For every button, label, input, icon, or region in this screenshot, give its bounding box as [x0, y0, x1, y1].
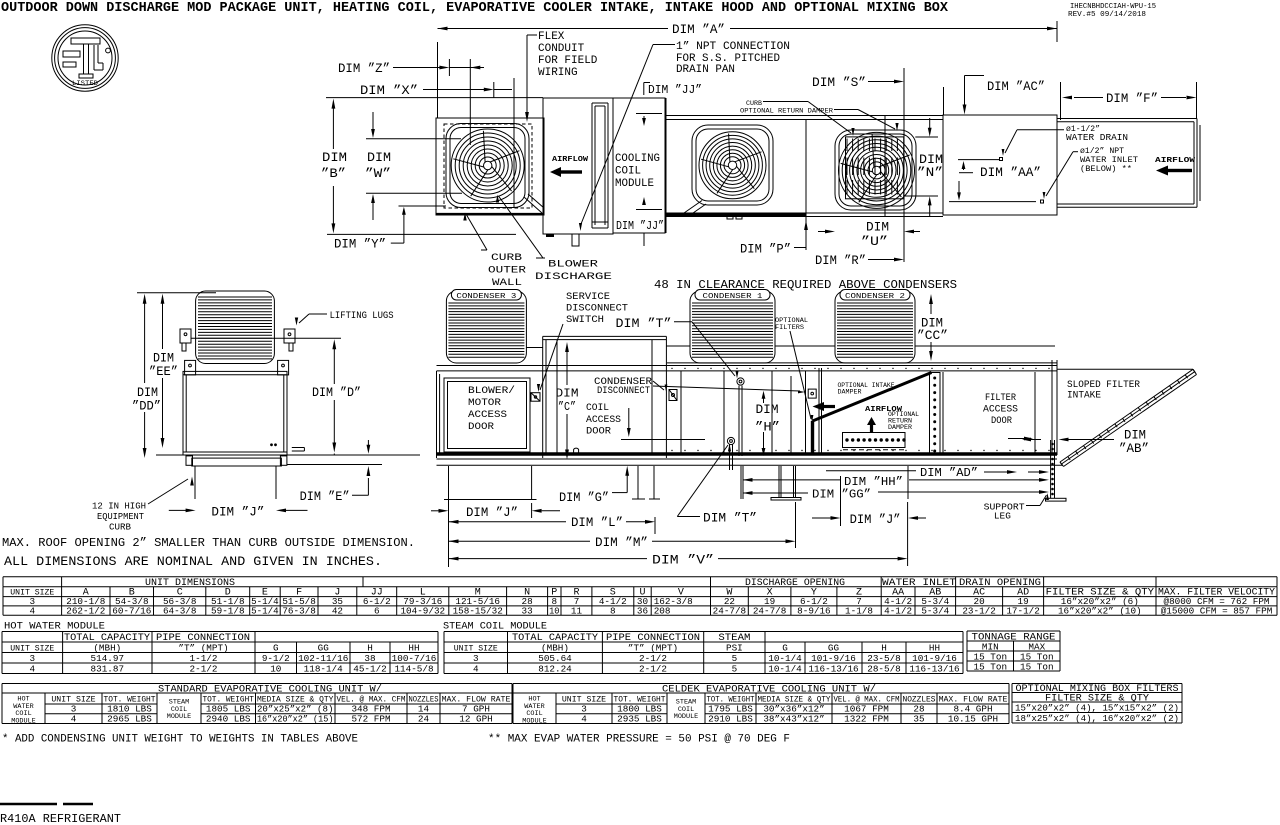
svg-text:COIL: COIL	[615, 166, 641, 178]
svg-text:DIM ”E”: DIM ”E”	[300, 490, 350, 504]
svg-text:CURB: CURB	[491, 252, 522, 264]
svg-text:@15000 CFM = 857 FPM: @15000 CFM = 857 FPM	[1161, 605, 1273, 616]
svg-text:* ADD CONDENSING UNIT WEIGHT T: * ADD CONDENSING UNIT WEIGHT TO WEIGHTS …	[2, 734, 358, 746]
right elevation: right section dividers	[680, 371, 682, 455]
svg-text:CURB: CURB	[109, 523, 132, 533]
plan view: DIM Y dimension	[334, 238, 386, 252]
left elevation: lifting lug upper left	[180, 329, 191, 343]
svg-text:G: G	[273, 642, 279, 653]
svg-text:”C”: ”C”	[558, 401, 576, 414]
plan view: curb inner dashed wall	[444, 124, 532, 208]
svg-text:AIRFLOW: AIRFLOW	[552, 156, 589, 164]
svg-text:1” NPT CONNECTION: 1” NPT CONNECTION	[676, 41, 790, 53]
svg-text:DIM ”AA”: DIM ”AA”	[980, 166, 1041, 180]
svg-text:DIM: DIM	[1124, 429, 1146, 443]
plan view: curb label small	[740, 100, 833, 115]
svg-text:4: 4	[71, 713, 77, 724]
svg-text:38”x43”x12”: 38”x43”x12”	[763, 713, 824, 724]
plan view: blower discharge module	[543, 98, 613, 234]
svg-text:4: 4	[473, 663, 479, 674]
svg-text:2-1/2: 2-1/2	[190, 663, 218, 674]
svg-text:1322 FPM: 1322 FPM	[844, 713, 889, 724]
svg-text:1-1/2: 1-1/2	[190, 653, 218, 664]
svg-text:DIM ”J”: DIM ”J”	[850, 513, 901, 527]
svg-text:DIM ”AC”: DIM ”AC”	[987, 80, 1045, 94]
right elevation: blower access door	[444, 378, 530, 452]
right elevation: DIM G dimension	[559, 491, 609, 505]
svg-text:FOR FIELD: FOR FIELD	[538, 55, 598, 67]
svg-text:ACCESS: ACCESS	[586, 414, 621, 426]
svg-text:812.24: 812.24	[538, 663, 572, 674]
svg-text:DIM ”A”: DIM ”A”	[672, 23, 725, 37]
svg-text:DAMPER: DAMPER	[838, 389, 862, 396]
plan view: flex conduit label + leader	[538, 31, 598, 79]
svg-text:WATER DRAIN: WATER DRAIN	[1066, 133, 1128, 143]
svg-text:4: 4	[30, 605, 36, 616]
svg-text:15 Ton: 15 Ton	[974, 661, 1007, 672]
right elevation: support leg	[1050, 440, 1052, 498]
right elevation: DIM C dimension	[556, 388, 579, 415]
plan view: chamfer band corner	[684, 201, 702, 214]
svg-text:REV.#5 09/14/2018: REV.#5 09/14/2018	[1068, 11, 1146, 19]
svg-text:5: 5	[732, 653, 738, 664]
svg-text:DIM: DIM	[556, 388, 579, 401]
svg-text:DIM ”GG”: DIM ”GG”	[812, 489, 871, 502]
svg-text:DRAIN PAN: DRAIN PAN	[676, 64, 735, 76]
left elevation: DIM J dimension	[169, 509, 186, 511]
svg-text:104-9/32: 104-9/32	[400, 605, 445, 616]
plan view: condenser grille bars	[847, 139, 897, 195]
svg-text:BLOWER/: BLOWER/	[468, 385, 515, 397]
svg-text:DIM ”T”: DIM ”T”	[616, 317, 672, 331]
svg-text:IHECNBHDCCIAH-WPU-15: IHECNBHDCCIAH-WPU-15	[1070, 3, 1156, 11]
svg-text:ALL DIMENSIONS ARE NOMINAL AND: ALL DIMENSIONS ARE NOMINAL AND GIVEN IN …	[4, 554, 382, 569]
plan view: AIRFLOW arrow right	[1155, 157, 1196, 165]
svg-text:4-1/2: 4-1/2	[884, 605, 912, 616]
svg-text:45-1/2: 45-1/2	[353, 663, 386, 674]
svg-text:DIM ”S”: DIM ”S”	[812, 76, 866, 90]
svg-text:DIM: DIM	[756, 403, 779, 417]
svg-text:CONDENSER 2: CONDENSER 2	[845, 293, 905, 301]
svg-text:9-1/2: 9-1/2	[262, 653, 290, 664]
plan view: heating fan	[699, 132, 766, 199]
left elevation: ground lines	[156, 454, 183, 456]
svg-text:12 GPH: 12 GPH	[459, 713, 492, 724]
svg-text:INTAKE: INTAKE	[1067, 390, 1101, 402]
svg-text:1-1/8: 1-1/8	[845, 605, 873, 616]
table: tonnage range	[967, 630, 1060, 632]
svg-text:(MBH): (MBH)	[93, 642, 121, 653]
refrigerant underline	[0, 803, 57, 805]
ETL listed logo	[52, 25, 118, 91]
svg-text:H: H	[881, 642, 887, 653]
svg-text:5: 5	[732, 663, 738, 674]
svg-text:DIM ”G”: DIM ”G”	[559, 491, 609, 505]
table: hot water module	[4, 621, 105, 633]
svg-text:116-13/16: 116-13/16	[808, 663, 858, 674]
plan view: curb box (blower section)	[436, 118, 544, 215]
svg-text:EQUIPMENT: EQUIPMENT	[97, 512, 145, 522]
svg-text:DIM ”AD”: DIM ”AD”	[920, 466, 978, 480]
svg-text:5-1/4: 5-1/4	[251, 605, 279, 616]
svg-text:514.97: 514.97	[91, 653, 124, 664]
right elevation: support leg label	[984, 503, 1025, 522]
svg-text:HH: HH	[408, 642, 419, 653]
svg-text:4: 4	[30, 663, 36, 674]
right elevation: DIM AB dimension	[1119, 429, 1149, 457]
right elevation: top rails	[667, 362, 1057, 364]
right elevation: DIM GG dimension	[743, 492, 809, 494]
svg-text:AIRFLOW: AIRFLOW	[1155, 157, 1196, 165]
svg-text:PSI: PSI	[726, 642, 743, 653]
svg-text:24-7/8: 24-7/8	[753, 605, 786, 616]
svg-text:”CC”: ”CC”	[917, 329, 948, 343]
svg-text:DIM ”L”: DIM ”L”	[571, 516, 623, 530]
plan view: DIM R dimension	[815, 254, 866, 268]
right elevation: DIM J dimension (right)	[812, 517, 832, 519]
svg-text:28-5/8: 28-5/8	[867, 663, 900, 674]
svg-text:G: G	[782, 642, 788, 653]
svg-text:OPTIONAL RETURN DAMPER: OPTIONAL RETURN DAMPER	[740, 108, 833, 115]
svg-text:2965 LBS: 2965 LBS	[107, 713, 152, 724]
left elevation: DIM E dimension	[300, 490, 350, 504]
svg-text:FLEX: FLEX	[538, 31, 565, 43]
svg-text:8-9/16: 8-9/16	[797, 605, 830, 616]
svg-text:LIFTING LUGS: LIFTING LUGS	[330, 310, 394, 322]
svg-text:”W”: ”W”	[365, 167, 391, 181]
svg-text:DIM ”X”: DIM ”X”	[360, 84, 418, 98]
svg-text:DIM ”Y”: DIM ”Y”	[334, 238, 386, 252]
svg-text:23-1/2: 23-1/2	[962, 605, 995, 616]
svg-text:102-11/16: 102-11/16	[298, 653, 348, 664]
svg-text:FILTER: FILTER	[985, 392, 1017, 404]
svg-text:DIM ”JJ”: DIM ”JJ”	[616, 220, 664, 233]
svg-text:CONDUIT: CONDUIT	[538, 43, 585, 55]
svg-text:DIM: DIM	[919, 153, 943, 167]
svg-text:16”x20”x2” (15): 16”x20”x2” (15)	[257, 713, 334, 724]
svg-text:DISCHARGE OPENING: DISCHARGE OPENING	[745, 577, 845, 589]
plan view: curb outer wall label	[488, 252, 527, 289]
svg-text:BLOWER: BLOWER	[548, 259, 599, 271]
right elevation: DIM CC dimension	[917, 317, 948, 344]
svg-text:HOT WATER MODULE: HOT WATER MODULE	[4, 621, 105, 633]
svg-text:12 IN HIGH: 12 IN HIGH	[92, 502, 146, 512]
svg-text:DAMPER: DAMPER	[888, 424, 912, 431]
svg-text:100-7/16: 100-7/16	[392, 653, 437, 664]
svg-text:”H”: ”H”	[755, 421, 780, 435]
svg-text:”AB”: ”AB”	[1119, 442, 1149, 456]
svg-text:(BELOW) **: (BELOW) **	[1080, 164, 1132, 174]
svg-text:SERVICE: SERVICE	[566, 291, 610, 303]
svg-text:10-1/4: 10-1/4	[768, 663, 802, 674]
svg-text:16”x20”x2” (10): 16”x20”x2” (10)	[1058, 605, 1142, 616]
plan view: DIM AA dimension	[980, 166, 1041, 180]
left elevation: lug rail line	[191, 337, 341, 339]
right elevation: intake damper	[811, 421, 814, 456]
plan view: DIM X dimension	[360, 84, 418, 98]
svg-text:15 Ton: 15 Ton	[1020, 661, 1053, 672]
svg-text:24: 24	[418, 713, 430, 724]
svg-text:59-1/8: 59-1/8	[211, 605, 244, 616]
svg-text:831.87: 831.87	[91, 663, 124, 674]
right elevation: grommet lower drop pipe	[729, 445, 731, 471]
svg-text:2-1/2: 2-1/2	[639, 653, 667, 664]
svg-text:DIM ”M”: DIM ”M”	[595, 536, 648, 550]
right elevation: DIM T lower	[703, 512, 757, 526]
svg-text:DIM ”T”: DIM ”T”	[703, 512, 757, 526]
plan view: condenser fan housing with grille	[835, 130, 916, 210]
right elevation: panel rivet dots	[671, 368, 1049, 452]
plan view: DIM U dimension	[861, 221, 889, 250]
right elevation: condenser 3	[446, 291, 526, 363]
plan view: mixing box	[943, 115, 1057, 215]
svg-text:DIM ”Z”: DIM ”Z”	[338, 62, 390, 76]
right elevation: grommet lower	[727, 437, 734, 444]
right elevation: AIRFLOW mid arrow	[865, 406, 903, 414]
svg-text:DIM ”D”: DIM ”D”	[312, 386, 361, 400]
svg-text:OUTDOOR DOWN DISCHARGE MOD PAC: OUTDOOR DOWN DISCHARGE MOD PACKAGE UNIT,…	[1, 1, 949, 16]
svg-text:10-1/4: 10-1/4	[768, 653, 802, 664]
svg-text:60-7/16: 60-7/16	[112, 605, 151, 616]
svg-text:”B”: ”B”	[321, 167, 346, 181]
svg-text:42: 42	[332, 605, 343, 616]
plan view: water drain label + leader	[1066, 125, 1128, 143]
svg-text:GG: GG	[828, 642, 839, 653]
svg-text:DISCONNECT: DISCONNECT	[597, 385, 650, 396]
plan view: damper leaders	[763, 101, 808, 103]
right elevation: grommet upper drop pipe	[738, 386, 740, 457]
left elevation: lifting lug lower right	[278, 360, 289, 375]
svg-text:DIM: DIM	[866, 221, 889, 235]
svg-text:DISCONNECT: DISCONNECT	[566, 303, 628, 315]
svg-text:DIM ”F”: DIM ”F”	[1106, 92, 1158, 106]
svg-text:114-5/8: 114-5/8	[394, 663, 433, 674]
svg-text:UNIT DIMENSIONS: UNIT DIMENSIONS	[145, 577, 235, 589]
svg-text:3: 3	[30, 653, 36, 664]
plan view: DIM JJ top label	[643, 83, 645, 96]
svg-text:5-3/4: 5-3/4	[921, 605, 949, 616]
plan view: top reference line	[326, 97, 543, 99]
right elevation: service switch box	[531, 393, 540, 402]
svg-text:CONDENSER 1: CONDENSER 1	[703, 293, 763, 301]
svg-text:3: 3	[473, 653, 479, 664]
svg-text:MODULE: MODULE	[522, 717, 546, 725]
svg-text:DIM ”HH”: DIM ”HH”	[844, 476, 903, 489]
right elevation: optional filters label	[775, 317, 808, 332]
right elevation: DIM J dimension (left)	[431, 510, 440, 512]
right elevation: condenser disconnect label	[594, 376, 652, 396]
svg-text:COOLING: COOLING	[615, 153, 660, 165]
svg-text:2940 LBS: 2940 LBS	[206, 713, 251, 724]
right elevation: door handle	[574, 448, 579, 454]
plan view: water inlet label + leader	[1080, 147, 1138, 174]
left elevation: DIM EE dimension	[137, 292, 216, 294]
svg-text:76-3/8: 76-3/8	[282, 605, 315, 616]
svg-text:HH: HH	[929, 642, 940, 653]
plan view: blower fan	[451, 129, 524, 202]
svg-text:23-5/8: 23-5/8	[867, 653, 900, 664]
plan view: intake hood	[1057, 118, 1197, 120]
svg-text:18”x25”x2” (4), 16”x20”x2” (2): 18”x25”x2” (4), 16”x20”x2” (2)	[1015, 713, 1179, 724]
plan view: blower discharge label	[535, 259, 612, 284]
left elevation: DIM DD dimension	[144, 303, 146, 383]
svg-text:LISTED: LISTED	[72, 80, 98, 87]
left elevation: drain stub	[292, 447, 305, 449]
svg-text:DIM ”V”: DIM ”V”	[652, 553, 714, 567]
svg-text:64-3/8: 64-3/8	[163, 605, 196, 616]
right elevation: DIM M dimension	[449, 540, 591, 542]
svg-text:6: 6	[374, 605, 380, 616]
plan view: DIM JJ internal marks	[636, 113, 662, 115]
plan view: 1in NPT drain pan label + leader	[676, 41, 790, 76]
plan view: AIRFLOW arrow left	[552, 156, 589, 164]
footnote: condensing unit weight	[2, 734, 790, 746]
left elevation: equipment curb	[194, 466, 196, 499]
right elevation: heating module	[542, 336, 544, 458]
svg-text:SWITCH: SWITCH	[566, 314, 604, 326]
svg-text:LEG: LEG	[994, 512, 1011, 522]
plan view: cooling coil module	[613, 98, 665, 233]
svg-text:GG: GG	[318, 642, 329, 653]
right elevation: DIM AD dimension	[826, 470, 916, 472]
svg-text:10.15 GPH: 10.15 GPH	[948, 713, 998, 724]
svg-text:17-1/2: 17-1/2	[1006, 605, 1039, 616]
right elevation: disconnect box 1	[669, 390, 677, 401]
right elevation: sloped filter intake	[1057, 368, 1193, 370]
right elevation: legs and curb	[448, 466, 450, 567]
svg-text:4: 4	[581, 713, 587, 724]
svg-text:CELDEK EVAPORATIVE COOLING UNI: CELDEK EVAPORATIVE COOLING UNIT W/	[662, 684, 876, 696]
right elevation: optional intake damper label	[838, 382, 895, 396]
svg-text:”N”: ”N”	[917, 166, 943, 180]
svg-text:(MBH): (MBH)	[541, 642, 569, 653]
svg-text:DOOR: DOOR	[586, 426, 612, 438]
plan view: chamfer corner	[524, 197, 542, 213]
svg-text:DIM: DIM	[322, 151, 347, 165]
plan view: main band outline	[666, 115, 943, 117]
svg-text:”T” (MPT): ”T” (MPT)	[178, 642, 228, 653]
svg-text:MOTOR: MOTOR	[468, 397, 502, 409]
right elevation: DIM HH dimension	[743, 479, 841, 481]
svg-text:STEAM COIL MODULE: STEAM COIL MODULE	[443, 621, 547, 633]
left elevation: condenser coil	[196, 291, 275, 364]
right elevation: condenser 2	[835, 291, 915, 363]
right elevation: service disconnect switch label	[566, 291, 628, 326]
right elevation: DIM V dimension	[449, 558, 648, 560]
svg-text:2935 LBS: 2935 LBS	[617, 713, 662, 724]
right elevation: refrigerant pipe lines	[526, 347, 542, 349]
left elevation: DIM D dimension	[312, 386, 361, 400]
svg-text:11: 11	[571, 605, 583, 616]
note: max roof opening	[2, 536, 415, 569]
svg-text:R410A REFRIGERANT: R410A REFRIGERANT	[0, 813, 121, 825]
table: celdek evaporative cooling unit	[513, 683, 1009, 685]
svg-text:262-1/2: 262-1/2	[66, 605, 105, 616]
table: standard evaporative cooling unit	[2, 683, 512, 685]
svg-text:38: 38	[364, 653, 375, 664]
svg-text:DIM ”J”: DIM ”J”	[466, 506, 518, 520]
svg-text:DIM ”R”: DIM ”R”	[815, 254, 866, 268]
plan view: heating fan housing	[692, 125, 773, 205]
svg-text:DIM: DIM	[153, 352, 174, 366]
plan view: DIM W dimension	[365, 151, 391, 181]
left elevation: cabinet	[183, 371, 287, 455]
right elevation: blower module outline	[436, 371, 438, 458]
svg-text:572 FPM: 572 FPM	[351, 713, 390, 724]
svg-text:10: 10	[549, 605, 559, 616]
table: optional mixing box filters	[1012, 683, 1182, 685]
svg-text:WALL: WALL	[492, 277, 522, 289]
svg-text:2910 LBS: 2910 LBS	[708, 713, 753, 724]
svg-text:ACCESS: ACCESS	[468, 409, 507, 421]
svg-text:101-9/16: 101-9/16	[912, 653, 957, 664]
note: 48 in clearance	[654, 278, 957, 292]
right elevation: condenser 1	[690, 291, 775, 363]
svg-text:MAX. ROOF OPENING 2” SMALLER T: MAX. ROOF OPENING 2” SMALLER THAN CURB O…	[2, 536, 415, 550]
plan view: DIM F dimension	[1106, 92, 1158, 106]
svg-text:DIM: DIM	[137, 386, 158, 400]
right elevation: optional return damper label	[888, 411, 919, 431]
svg-text:35: 35	[913, 713, 924, 724]
left elevation: lifting lugs label	[330, 310, 394, 322]
plan view: drain stub foot	[572, 234, 579, 246]
svg-text:ACCESS: ACCESS	[983, 404, 1018, 416]
svg-text:DIM: DIM	[367, 151, 391, 165]
svg-text:COIL: COIL	[586, 402, 609, 414]
svg-text:** MAX EVAP WATER PRESSURE = 5: ** MAX EVAP WATER PRESSURE = 50 PSI @ 70…	[488, 734, 790, 746]
svg-text:MODULE: MODULE	[167, 713, 191, 721]
plan view: DIM B dimension	[321, 151, 347, 181]
svg-text:15”x20”x2” (4), 15”x15”x2” (2): 15”x20”x2” (4), 15”x15”x2” (2)	[1015, 703, 1179, 714]
svg-text:505.64: 505.64	[538, 653, 572, 664]
plan view: DIM S dimension	[812, 76, 866, 90]
refrigerant label	[0, 813, 121, 825]
svg-text:”U”: ”U”	[861, 235, 888, 249]
svg-text:MODULE: MODULE	[674, 713, 698, 721]
right elevation: coil access door label	[586, 402, 621, 438]
svg-text:8: 8	[610, 605, 616, 616]
right elevation: filter access door	[942, 372, 944, 455]
left elevation: lifting lug lower left	[185, 360, 196, 375]
svg-text:H: H	[367, 642, 373, 653]
right elevation: disconnect box 2	[808, 389, 816, 398]
plan view: DIM P dimension	[740, 243, 791, 257]
svg-text:DIM ”J”: DIM ”J”	[211, 506, 264, 520]
right elevation: right edge	[1051, 360, 1053, 455]
plan view: DIM A dimension line	[437, 42, 439, 118]
svg-text:158-15/32: 158-15/32	[453, 605, 503, 616]
right elevation: grommet upper	[737, 378, 744, 385]
table: steam coil module	[443, 621, 547, 633]
left elevation: 12 in high equipment curb label	[92, 502, 146, 533]
svg-text:”T” (MPT): ”T” (MPT)	[628, 642, 678, 653]
plan view: condenser fan	[839, 132, 915, 208]
svg-text:101-9/16: 101-9/16	[811, 653, 856, 664]
plan view: DIM AC label	[987, 80, 1045, 94]
right elevation: DIM L dimension	[449, 521, 567, 523]
left elevation: base rail	[192, 458, 282, 466]
svg-text:116-13/16: 116-13/16	[909, 663, 959, 674]
svg-text:DISCHARGE: DISCHARGE	[535, 271, 612, 283]
svg-text:CONDENSER 3: CONDENSER 3	[456, 293, 516, 301]
svg-text:DIM ”JJ”: DIM ”JJ”	[648, 84, 702, 97]
plan view: DIM N dimension	[917, 153, 943, 180]
right elevation: return damper grille	[843, 433, 906, 448]
svg-text:”EE”: ”EE”	[149, 365, 178, 379]
svg-text:10: 10	[270, 663, 281, 674]
svg-text:CURB: CURB	[746, 100, 762, 107]
svg-text:FILTERS: FILTERS	[775, 324, 804, 332]
